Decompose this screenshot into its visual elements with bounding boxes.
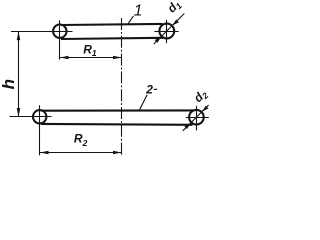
R2 right arrow — [113, 151, 122, 155]
d1 lower arrow — [155, 36, 162, 43]
d2 leader diagonal line — [183, 105, 209, 131]
dimension R2 line — [40, 152, 122, 154]
dimension R1 line — [60, 57, 122, 59]
item 2 leader — [140, 95, 148, 110]
link 2 left hole circle — [33, 110, 46, 123]
link 2 top tangent line — [41, 109, 194, 111]
svg-text:h: h — [0, 79, 18, 89]
h bottom arrow — [17, 108, 21, 117]
svg-text:R2: R2 — [74, 131, 88, 147]
hole d1 horizontal centerline — [154, 31, 178, 33]
left hole 2 vertical centerline / R2 extension — [39, 105, 41, 155]
item 2 dash — [154, 88, 157, 90]
dimension h line — [18, 32, 20, 117]
d1 upper arrow — [172, 20, 179, 26]
svg-text:1: 1 — [134, 2, 143, 19]
svg-text:2: 2 — [145, 83, 153, 97]
hole d1 circle — [159, 24, 174, 39]
d1 leader diagonal line — [154, 14, 185, 45]
svg-text:d2: d2 — [191, 86, 211, 106]
left hole 1 vertical centerline / R1 extension — [59, 20, 61, 59]
R2 left arrow — [40, 151, 49, 155]
hole d2 circle — [189, 110, 204, 125]
link 2 bottom tangent line — [41, 123, 193, 126]
R1 right arrow — [113, 56, 122, 60]
hole d2 horizontal centerline — [186, 117, 209, 119]
vertical dash-dot axis — [121, 18, 123, 155]
hole d2 vertical centerline — [196, 106, 198, 130]
h top arrow — [17, 32, 21, 40]
d2 upper arrow — [202, 106, 209, 112]
link 1 bottom tangent line — [61, 38, 163, 39]
R1 left arrow — [60, 56, 69, 60]
link 1 top tangent line — [61, 24, 163, 25]
left hole 1 horizontal centerline / h extension — [11, 31, 73, 33]
svg-text:d1: d1 — [165, 0, 185, 16]
item 1 leader — [128, 16, 134, 24]
left hole 2 horizontal centerline / h extension — [10, 116, 52, 118]
link 1 left hole circle — [53, 25, 66, 38]
hole d1 vertical centerline — [166, 20, 168, 43]
svg-text:R1: R1 — [83, 42, 97, 58]
d2 lower arrow — [184, 122, 191, 129]
